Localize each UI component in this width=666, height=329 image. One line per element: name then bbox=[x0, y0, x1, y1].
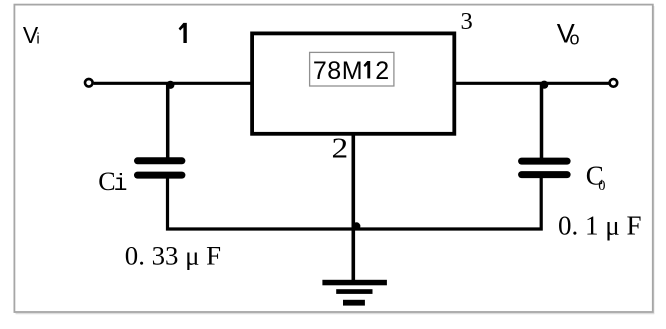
svg-text:0. 33 μ F: 0. 33 μ F bbox=[125, 241, 221, 271]
svg-text:0. 1 μ F: 0. 1 μ F bbox=[558, 211, 642, 241]
svg-text:i: i bbox=[36, 31, 39, 48]
svg-text:78M: 78M bbox=[313, 57, 363, 85]
svg-text:0: 0 bbox=[598, 178, 605, 194]
svg-text:o: o bbox=[570, 29, 580, 49]
svg-text:3: 3 bbox=[461, 8, 473, 35]
svg-text:i: i bbox=[114, 171, 128, 197]
svg-text:2: 2 bbox=[375, 57, 389, 85]
svg-text:2: 2 bbox=[332, 132, 349, 164]
